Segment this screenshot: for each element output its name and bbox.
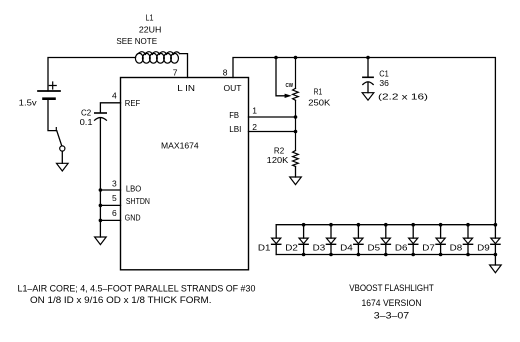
capacitor C2 0.1	[95, 113, 107, 120]
svg-text:3: 3	[112, 179, 117, 189]
wire D9 to ground	[494, 255, 496, 266]
node junction D2 cathode	[302, 253, 306, 257]
LED cathode rail	[276, 254, 495, 256]
svg-text:C1: C1	[379, 68, 389, 78]
svg-text:R1: R1	[314, 87, 323, 97]
svg-text:250K: 250K	[308, 97, 330, 107]
IC U1 MAX1674 body	[121, 78, 249, 270]
svg-text:LBI: LBI	[229, 124, 241, 134]
node junction pin 5	[99, 204, 103, 208]
svg-text:L1–AIR CORE; 4, 4.5–FOOT PARAL: L1–AIR CORE; 4, 4.5–FOOT PARALLEL STRAND…	[18, 284, 256, 294]
LED D5	[381, 225, 390, 255]
battery B1 1.5v	[38, 82, 60, 99]
svg-text:0.1: 0.1	[80, 117, 93, 127]
svg-text:6: 6	[112, 208, 117, 218]
svg-text:SHTDN: SHTDN	[126, 196, 150, 206]
potentiometer R1 250K	[293, 58, 299, 151]
capacitor C1 36	[363, 58, 373, 93]
svg-text:5: 5	[112, 193, 117, 203]
svg-text:7: 7	[173, 68, 178, 78]
wire pin 6 GND	[100, 219, 120, 221]
svg-text:L IN: L IN	[177, 83, 195, 93]
svg-text:1: 1	[252, 106, 257, 116]
node junction pin 3	[99, 188, 103, 192]
wire C2 down to ground rail	[99, 118, 101, 237]
svg-text:1674 VERSION: 1674 VERSION	[362, 298, 422, 308]
svg-text:D5: D5	[368, 243, 381, 253]
wire FB pin 1	[249, 116, 296, 118]
node junction D2 anode	[302, 223, 306, 227]
node junction D7 anode	[439, 223, 443, 227]
wire R1 wiper	[276, 58, 285, 96]
node junction LBI	[294, 130, 298, 134]
ground (R2)	[290, 177, 302, 185]
node junction D7 cathode	[439, 253, 443, 257]
node junction FB	[294, 115, 298, 119]
LED anode rail	[276, 224, 495, 226]
node junction wiper drop	[274, 56, 278, 60]
svg-text:C2: C2	[81, 107, 91, 117]
svg-text:L1: L1	[146, 13, 154, 23]
LED D3	[326, 225, 335, 255]
svg-text:D2: D2	[285, 243, 298, 253]
node junction pin 6	[99, 219, 103, 223]
svg-text:D1: D1	[258, 243, 271, 253]
LED D2	[299, 225, 308, 255]
node junction D4 cathode	[357, 253, 361, 257]
node junction R1 top	[294, 56, 298, 60]
svg-text:4: 4	[112, 91, 117, 101]
node junction D6 cathode	[411, 253, 415, 257]
svg-text:SEE NOTE: SEE NOTE	[116, 36, 157, 46]
wire LBI pin 2	[249, 131, 296, 133]
node junction D9 cathode	[494, 253, 498, 257]
svg-text:D3: D3	[313, 243, 326, 253]
svg-text:MAX1674: MAX1674	[161, 141, 199, 151]
svg-text:36: 36	[379, 78, 389, 88]
wire L1 to pin 7	[180, 54, 188, 78]
svg-text:REF: REF	[125, 98, 140, 108]
node junction D9 anode	[494, 223, 498, 227]
node junction D5 anode	[384, 223, 388, 227]
svg-text:2: 2	[252, 122, 257, 132]
node junction D6 anode	[411, 223, 415, 227]
svg-text:GND: GND	[125, 213, 141, 223]
wire battery positive to top rail	[48, 58, 136, 92]
switch S1	[56, 128, 65, 151]
LED D8	[463, 225, 472, 255]
svg-text:D4: D4	[340, 243, 353, 253]
LED D4	[354, 225, 363, 255]
ground (C1)	[362, 93, 374, 101]
svg-text:OUT: OUT	[224, 83, 242, 93]
ground (C2/pins)	[95, 237, 107, 245]
svg-text:LBO: LBO	[126, 184, 142, 194]
inductor L1 coil	[135, 52, 179, 64]
wire pin 3 LBO	[100, 189, 120, 191]
node junction D5 cathode	[384, 253, 388, 257]
node junction D8 anode	[466, 223, 470, 227]
wire switch to ground	[61, 151, 63, 163]
LED D6	[409, 225, 418, 255]
svg-text:D8: D8	[450, 243, 463, 253]
R1 wiper arrowhead	[285, 94, 292, 98]
node junction C1 top	[366, 56, 370, 60]
LED D9	[491, 225, 500, 255]
wire R2 to ground	[295, 167, 297, 178]
svg-text:3–3–07: 3–3–07	[374, 310, 409, 320]
ground (battery)	[57, 163, 69, 171]
svg-text:1.5v: 1.5v	[19, 98, 38, 108]
svg-text:FB: FB	[229, 110, 239, 120]
node junction D4 anode	[357, 223, 361, 227]
svg-text:22UH: 22UH	[139, 25, 162, 35]
wire REF pin 4 to C2	[100, 103, 120, 113]
svg-text:ON 1/8 ID x 9/16 OD x 1/8 THIC: ON 1/8 ID x 9/16 OD x 1/8 THICK FORM.	[30, 295, 212, 305]
ground (D9)	[490, 265, 502, 273]
wire pin 5 SHTDN	[100, 204, 120, 206]
svg-text:D6: D6	[395, 243, 408, 253]
svg-text:CW: CW	[286, 83, 294, 89]
node junction D3 cathode	[329, 253, 333, 257]
svg-text:8: 8	[223, 68, 228, 78]
node junction D8 cathode	[466, 253, 470, 257]
svg-text:(2.2 x 16): (2.2 x 16)	[378, 91, 428, 101]
svg-text:D7: D7	[422, 243, 435, 253]
svg-text:VBOOST FLASHLIGHT: VBOOST FLASHLIGHT	[349, 283, 434, 293]
wire pin 8 OUT to top rail	[233, 58, 495, 225]
LED D1	[272, 225, 281, 255]
LED D7	[436, 225, 445, 255]
wire battery negative to switch	[48, 99, 57, 131]
resistor R2 120K	[293, 151, 299, 167]
node junction D3 anode	[329, 223, 333, 227]
svg-text:D9: D9	[477, 243, 490, 253]
svg-text:120K: 120K	[267, 155, 289, 165]
